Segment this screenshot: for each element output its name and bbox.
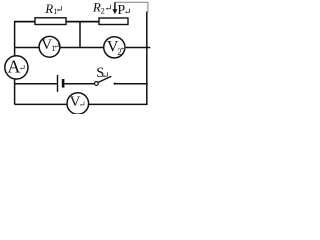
svg-text:2: 2 [101,7,105,16]
wire left vertical [14,21,16,105]
wire wiper horizontal [115,2,148,12]
svg-text:A: A [7,56,20,76]
voltmeter V2 [104,37,125,58]
wire top [15,21,100,23]
svg-text:R: R [44,1,53,16]
wire switch to right [114,83,148,85]
svg-text:P: P [117,3,125,18]
wire bottom [15,103,148,105]
wire battery to switch [64,83,94,85]
svg-text:1: 1 [53,7,57,16]
switch lever [98,76,111,82]
switch right contact dot [114,83,116,85]
svg-text:S: S [96,65,104,81]
ammeter A [5,56,28,79]
label S [96,65,107,81]
battery cell short plate [62,79,65,88]
resistor R2 (rheostat) [99,18,128,25]
wire middle horizontal [15,47,151,49]
svg-text:1: 1 [51,44,55,53]
battery cell long plate [57,75,59,92]
voltmeter V (battery terminal) [67,93,89,115]
label R2 [92,0,111,16]
svg-text:R: R [92,0,101,14]
resistor R1 [35,18,66,25]
voltmeter V1 [39,36,60,57]
wire right vertical [146,12,148,105]
label R1 [44,1,61,16]
wire junction vertical between R1 and R2 [79,22,81,48]
switch S pivot circle [95,82,99,86]
wire battery row left [15,83,57,85]
label P [117,3,129,18]
svg-text:V: V [70,94,81,110]
wiper arrow P [112,2,117,14]
